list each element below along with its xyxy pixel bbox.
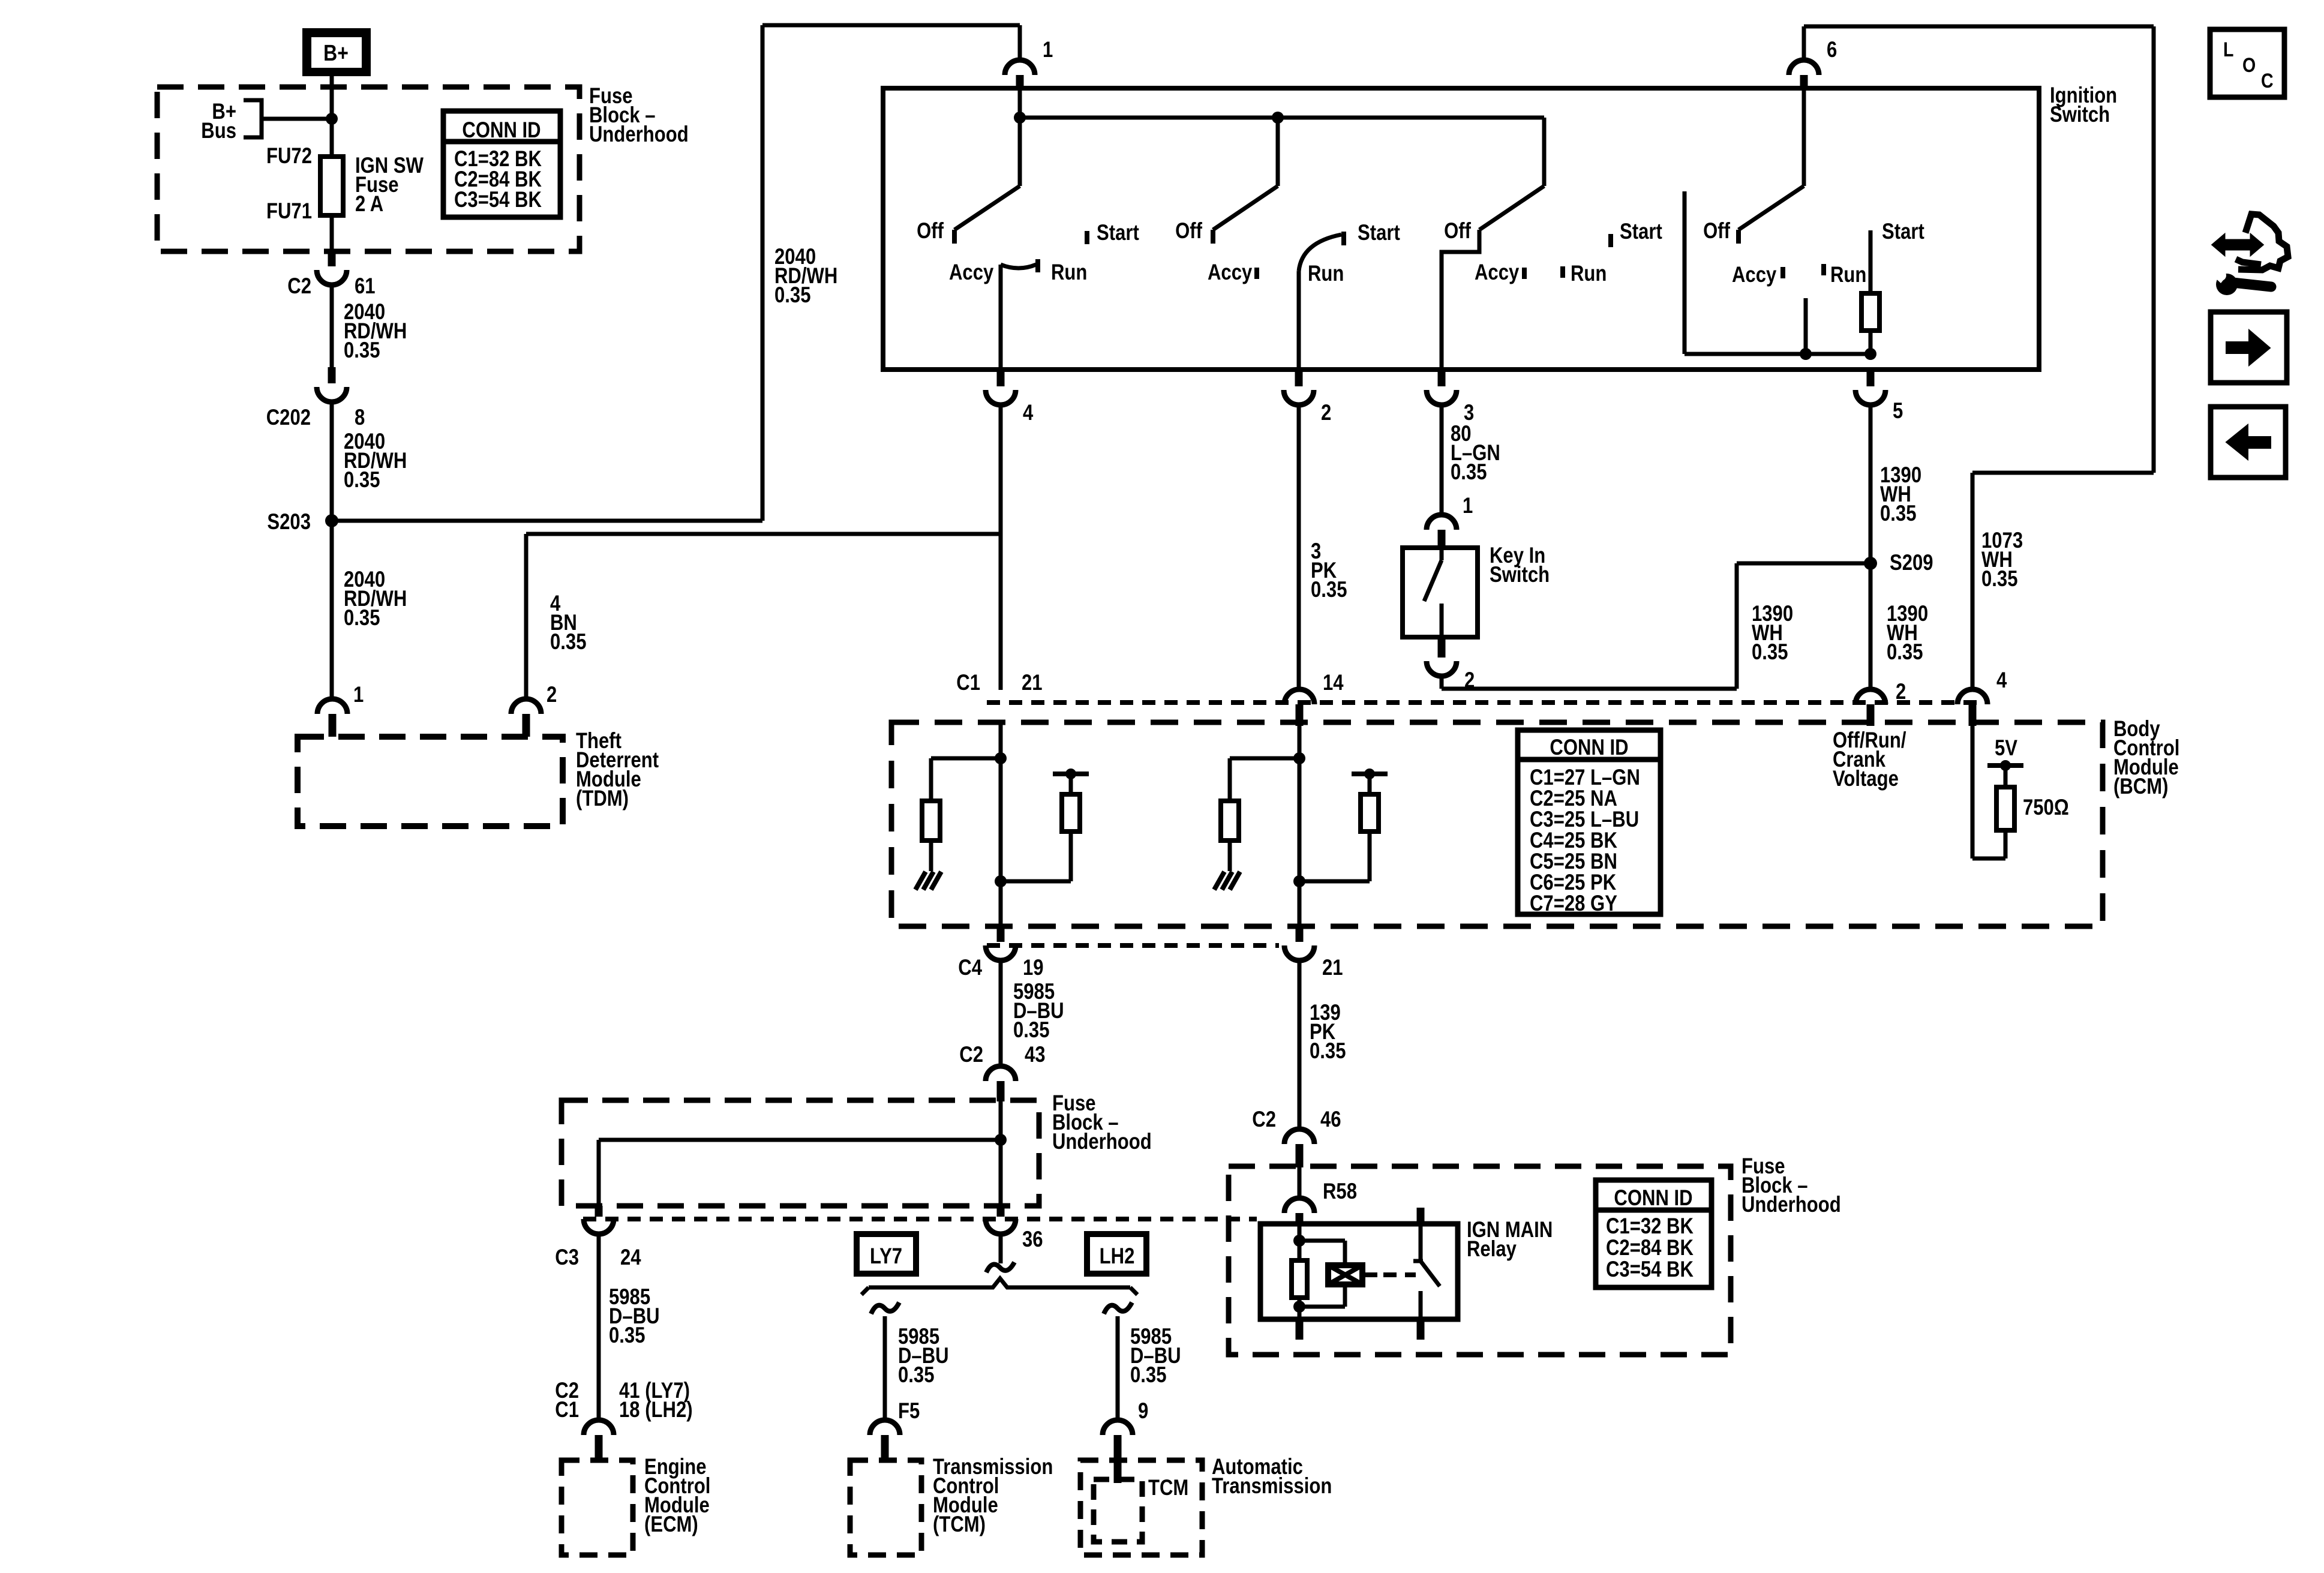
svg-text:B+: B+ — [323, 40, 349, 65]
svg-text:(TDM): (TDM) — [576, 786, 629, 811]
svg-text:19: 19 — [1023, 956, 1044, 980]
svg-text:Start: Start — [1620, 220, 1662, 244]
svg-text:CONN ID: CONN ID — [1550, 736, 1628, 760]
svg-text:C202: C202 — [266, 406, 311, 430]
svg-text:0.35: 0.35 — [550, 630, 586, 655]
svg-text:0.35: 0.35 — [1981, 567, 2017, 592]
svg-text:C7=28 GY: C7=28 GY — [1530, 891, 1617, 916]
svg-text:21: 21 — [1322, 956, 1343, 980]
svg-text:0.35: 0.35 — [609, 1323, 645, 1348]
svg-text:Underhood: Underhood — [1052, 1130, 1152, 1154]
svg-text:0.35: 0.35 — [1311, 578, 1347, 602]
svg-text:C1=32 BK: C1=32 BK — [1606, 1214, 1694, 1239]
svg-text:C: C — [2261, 70, 2274, 92]
svg-text:Accy: Accy — [1475, 260, 1519, 285]
svg-text:Transmission: Transmission — [1212, 1474, 1332, 1499]
svg-text:2 A: 2 A — [355, 192, 383, 217]
svg-text:C3=54 BK: C3=54 BK — [1606, 1257, 1694, 1282]
svg-text:0.35: 0.35 — [1880, 502, 1916, 526]
svg-text:C2: C2 — [1252, 1107, 1276, 1132]
svg-text:24: 24 — [620, 1245, 641, 1270]
svg-text:2: 2 — [1321, 401, 1331, 425]
svg-text:Run: Run — [1830, 263, 1866, 287]
svg-text:Start: Start — [1097, 221, 1139, 245]
svg-text:0.35: 0.35 — [1013, 1018, 1049, 1043]
svg-text:Off: Off — [917, 219, 944, 244]
svg-text:0.35: 0.35 — [898, 1363, 934, 1388]
svg-text:4: 4 — [1023, 401, 1033, 425]
svg-text:C1: C1 — [555, 1398, 579, 1422]
svg-text:1: 1 — [1463, 494, 1473, 518]
svg-text:Accy: Accy — [949, 260, 993, 285]
svg-text:21: 21 — [1022, 671, 1043, 695]
svg-text:18 (LH2): 18 (LH2) — [619, 1398, 693, 1422]
svg-text:2: 2 — [547, 683, 557, 707]
svg-text:0.35: 0.35 — [774, 283, 810, 308]
svg-text:Underhood: Underhood — [589, 122, 689, 147]
svg-text:C3: C3 — [555, 1245, 579, 1270]
svg-text:43: 43 — [1025, 1043, 1046, 1067]
svg-text:C4: C4 — [958, 956, 982, 980]
svg-text:9: 9 — [1138, 1399, 1148, 1424]
svg-text:0.35: 0.35 — [1887, 640, 1923, 665]
svg-text:C2: C2 — [287, 274, 311, 299]
svg-text:Off: Off — [1175, 219, 1202, 244]
svg-text:C2: C2 — [959, 1043, 983, 1067]
svg-text:TCM: TCM — [1148, 1476, 1188, 1500]
svg-text:Run: Run — [1308, 262, 1344, 286]
svg-text:Off: Off — [1444, 219, 1471, 244]
svg-text:(BCM): (BCM) — [2113, 775, 2168, 799]
svg-text:Run: Run — [1051, 260, 1087, 285]
svg-text:LY7: LY7 — [870, 1244, 902, 1269]
svg-text:FU72: FU72 — [266, 144, 312, 169]
svg-text:FU71: FU71 — [266, 199, 312, 224]
svg-text:LH2: LH2 — [1100, 1244, 1135, 1269]
svg-text:4: 4 — [1996, 668, 2007, 693]
svg-text:Accy: Accy — [1732, 263, 1776, 287]
svg-text:S203: S203 — [267, 510, 311, 535]
svg-text:F5: F5 — [898, 1399, 920, 1424]
svg-text:S209: S209 — [1890, 551, 1933, 575]
svg-text:Run: Run — [1571, 262, 1607, 286]
svg-text:Switch: Switch — [1490, 563, 1550, 587]
svg-text:36: 36 — [1022, 1227, 1043, 1252]
svg-text:5: 5 — [1893, 399, 1903, 424]
svg-text:Underhood: Underhood — [1742, 1193, 1841, 1217]
svg-text:46: 46 — [1320, 1107, 1341, 1132]
svg-text:(TCM): (TCM) — [933, 1512, 986, 1537]
svg-text:1: 1 — [1043, 38, 1053, 62]
svg-text:Bus: Bus — [201, 119, 236, 143]
svg-text:0.35: 0.35 — [1310, 1039, 1346, 1064]
svg-text:CONN ID: CONN ID — [462, 118, 541, 143]
svg-text:(ECM): (ECM) — [644, 1512, 698, 1537]
svg-text:8: 8 — [355, 406, 365, 430]
svg-text:L: L — [2223, 38, 2233, 61]
svg-text:0.35: 0.35 — [344, 468, 380, 493]
svg-text:R58: R58 — [1323, 1179, 1357, 1204]
svg-text:0.35: 0.35 — [1130, 1363, 1166, 1388]
svg-text:C2=84 BK: C2=84 BK — [1606, 1236, 1694, 1260]
svg-text:0.35: 0.35 — [1451, 460, 1487, 485]
svg-text:Start: Start — [1882, 220, 1924, 244]
svg-text:6: 6 — [1827, 38, 1837, 62]
svg-text:14: 14 — [1323, 671, 1344, 695]
svg-text:750Ω: 750Ω — [2023, 795, 2069, 820]
svg-text:Off: Off — [1703, 219, 1730, 244]
svg-text:0.35: 0.35 — [1752, 640, 1788, 665]
svg-text:Accy: Accy — [1208, 260, 1252, 285]
svg-text:5V: 5V — [1995, 736, 2017, 761]
svg-text:C1: C1 — [956, 671, 980, 695]
svg-text:CONN ID: CONN ID — [1614, 1186, 1692, 1211]
svg-text:O: O — [2242, 54, 2256, 77]
svg-text:0.35: 0.35 — [344, 338, 380, 363]
svg-text:61: 61 — [355, 274, 376, 299]
svg-text:Switch: Switch — [2050, 103, 2110, 127]
svg-text:0.35: 0.35 — [344, 606, 380, 631]
svg-text:Relay: Relay — [1467, 1237, 1517, 1262]
svg-text:C3=54 BK: C3=54 BK — [454, 188, 542, 212]
svg-text:Voltage: Voltage — [1833, 767, 1899, 791]
svg-text:1: 1 — [353, 683, 364, 707]
svg-text:Start: Start — [1358, 221, 1400, 245]
